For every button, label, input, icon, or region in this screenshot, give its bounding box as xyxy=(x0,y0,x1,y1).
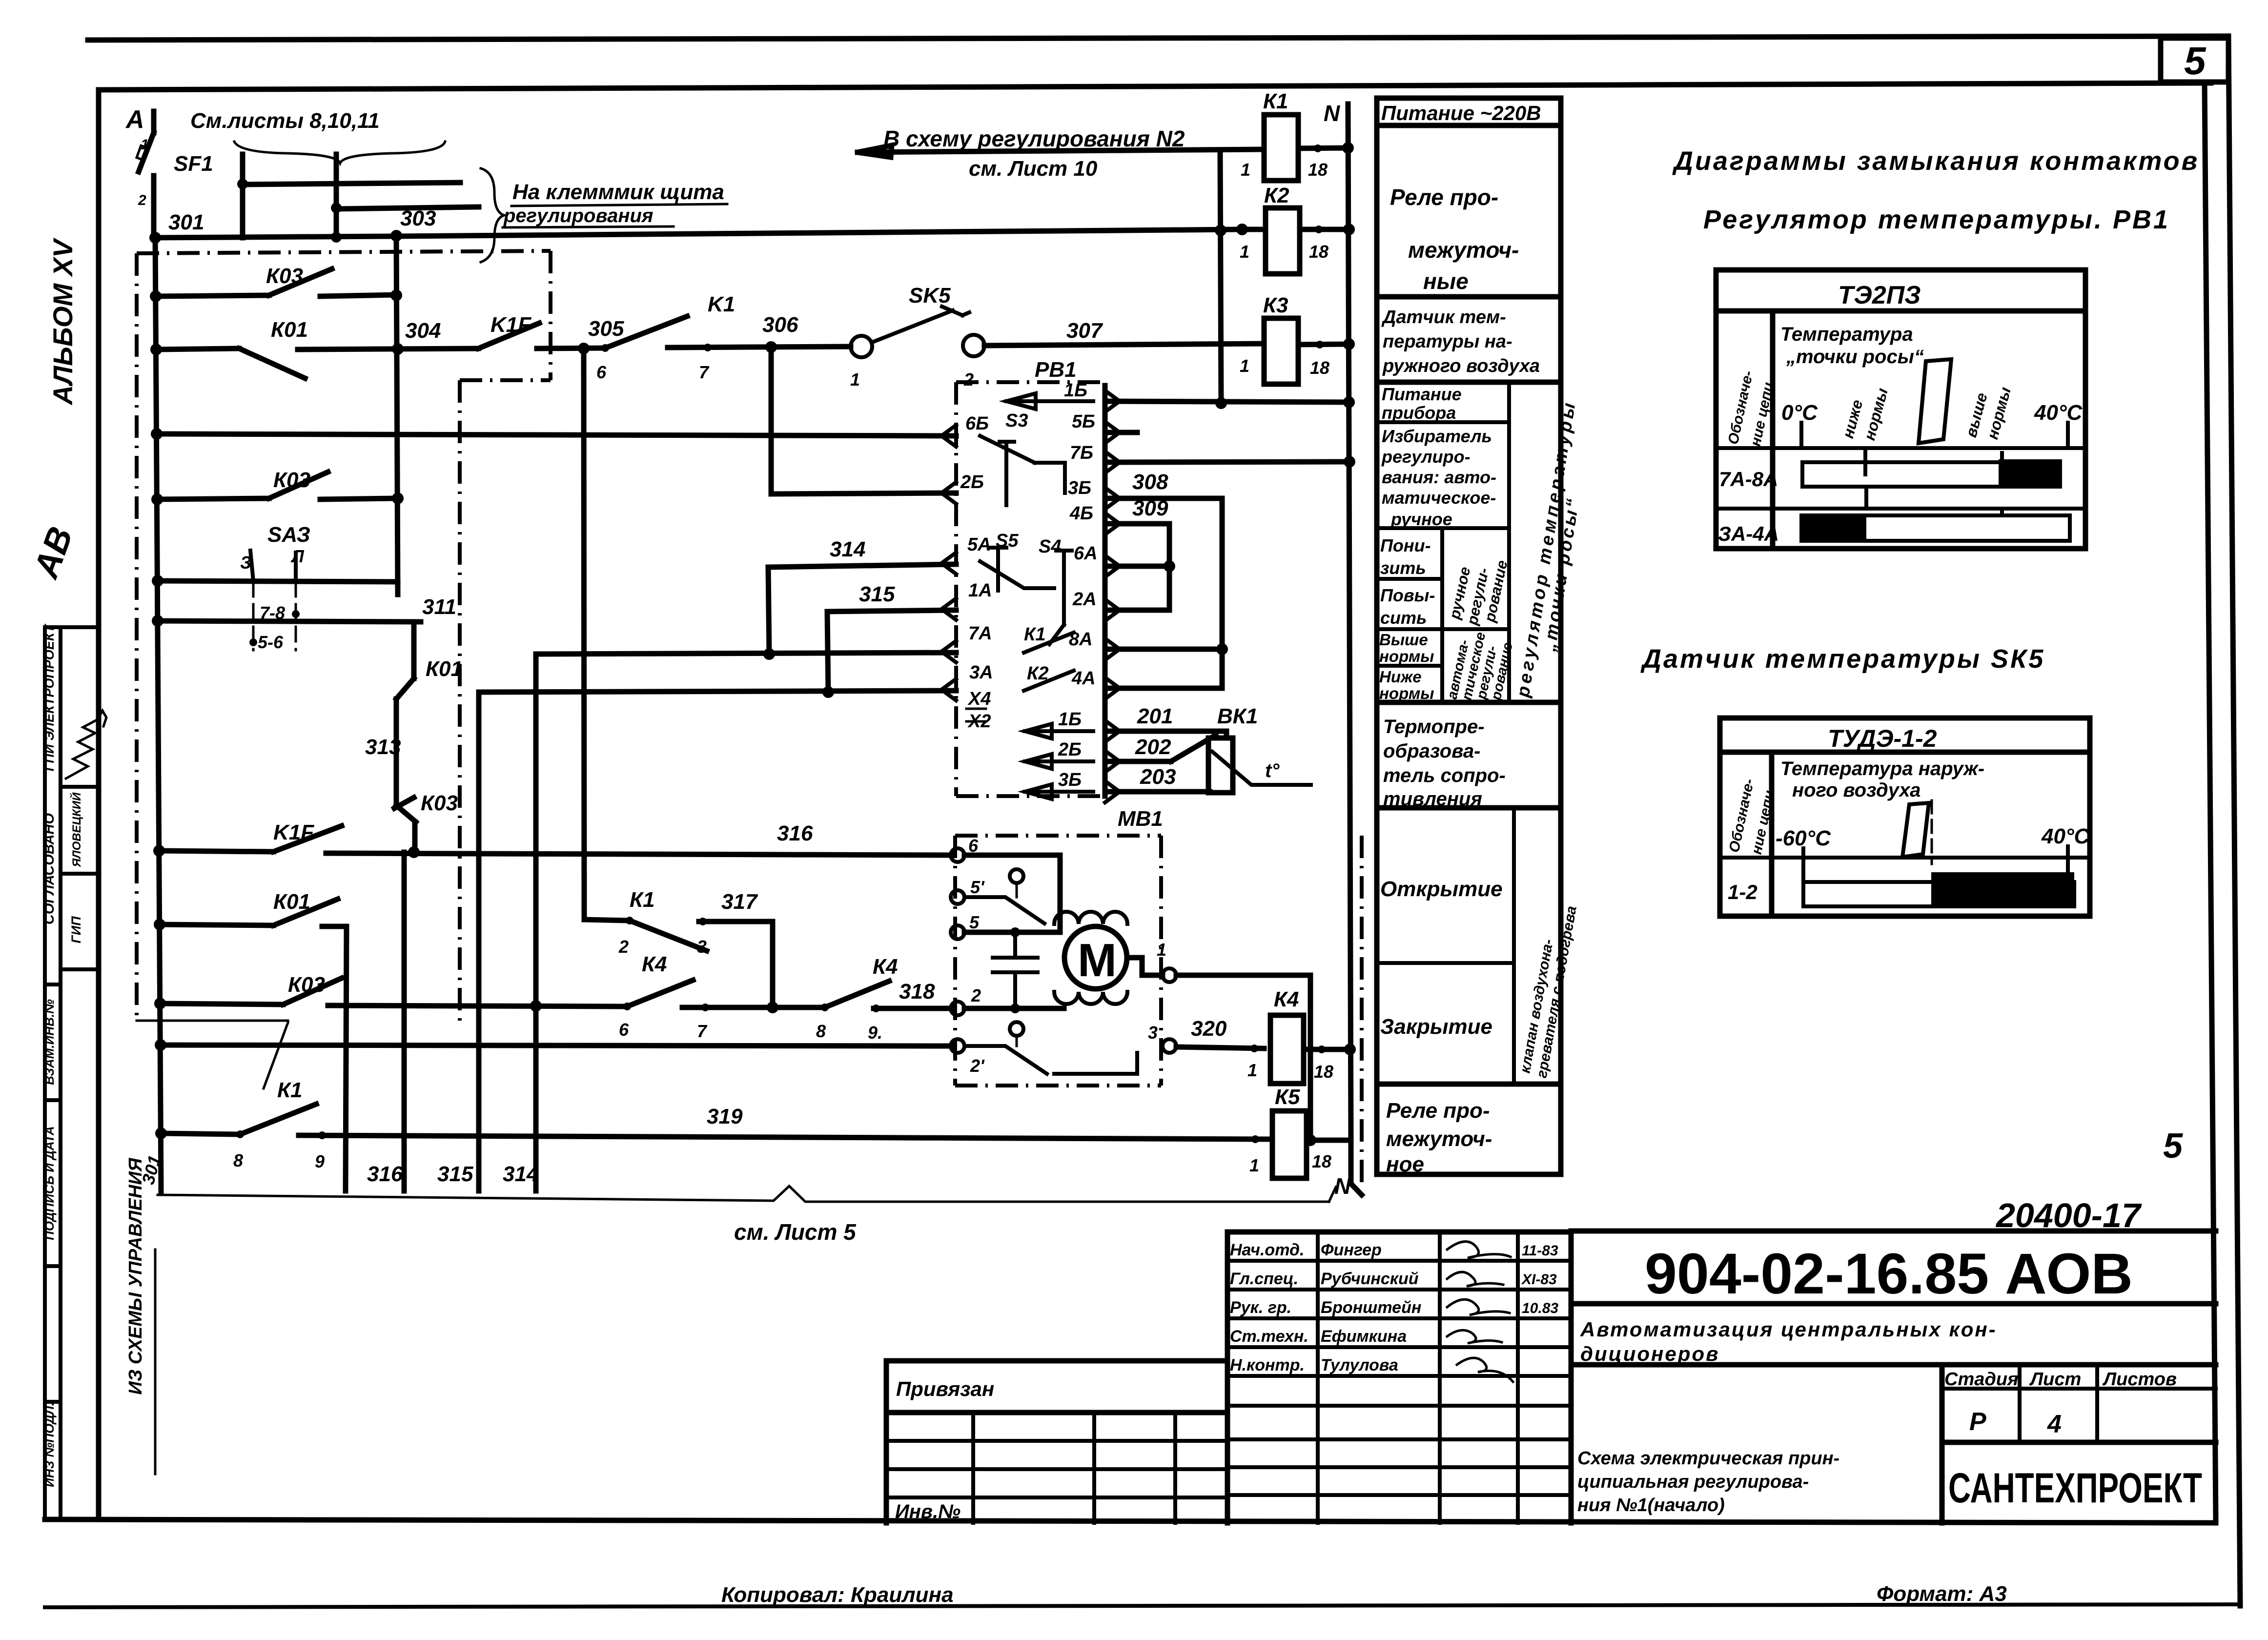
svg-text:9.: 9. xyxy=(868,1023,882,1043)
svg-text:ИНЗ №ПОДЛ.: ИНЗ №ПОДЛ. xyxy=(42,1402,57,1487)
svg-text:320: 320 xyxy=(1191,1017,1227,1041)
svg-text:3: 3 xyxy=(697,937,707,957)
svg-text:К4: К4 xyxy=(1274,987,1299,1011)
svg-text:К1: К1 xyxy=(1024,624,1046,645)
junction dot K03row-vert xyxy=(390,289,402,301)
tick below bar xyxy=(1864,487,1868,509)
svg-text:Р: Р xyxy=(1969,1408,1986,1436)
relay coil K1 xyxy=(1264,115,1298,181)
contact K03 vertical blade xyxy=(394,798,416,822)
svg-text:ного воздуха: ного воздуха xyxy=(1792,779,1921,801)
PB1 K2 contact xyxy=(1024,671,1074,691)
svg-text:Повы-: Повы- xyxy=(1380,585,1435,605)
svg-text:тивления: тивления xyxy=(1383,788,1482,810)
junction dot stub2-bus301 xyxy=(331,232,342,243)
svg-text:1Б: 1Б xyxy=(1064,380,1087,401)
MV1 dash-dot box xyxy=(955,836,1161,1086)
vertical 303 to 304 xyxy=(396,236,398,594)
wire 307 xyxy=(984,344,1264,346)
svg-text:1: 1 xyxy=(1241,160,1250,180)
table TE2P3 outer xyxy=(1716,270,2085,549)
svg-text:АЛЬБОМ XV: АЛЬБОМ XV xyxy=(47,237,78,406)
sheet outer bottom line xyxy=(45,1604,2240,1607)
wire 308 row xyxy=(1105,496,1222,501)
svg-text:Тулулова: Тулулова xyxy=(1321,1356,1398,1374)
BK1 t blade xyxy=(1212,752,1311,785)
wire 306 segment xyxy=(668,347,851,348)
bar t2 filled xyxy=(1931,872,2074,906)
vertical exit 1098 from 7A row xyxy=(533,654,539,1191)
junction dot on 3A row xyxy=(822,686,834,698)
junction dot 313-chain on row316 xyxy=(408,846,420,858)
contact K01 vertical blade xyxy=(396,678,414,699)
wire 318 xyxy=(874,1006,953,1011)
PB1 S3 T bar xyxy=(1000,442,1014,505)
wire K1 coil to N xyxy=(1298,148,1348,148)
svg-text:ВК1: ВК1 xyxy=(1217,704,1258,728)
junction dot N-K3 xyxy=(1343,338,1355,350)
contact K01 blade row716 xyxy=(239,348,305,378)
junction dot N-K2 xyxy=(1343,224,1355,235)
svg-text:1: 1 xyxy=(1240,356,1249,376)
junction dot N-K4 xyxy=(1344,1044,1356,1055)
MV1 limit switch box xyxy=(964,855,1060,932)
MV1 inner wire to 3 xyxy=(1054,1053,1137,1074)
wire 3A row xyxy=(479,691,956,692)
svg-text:1: 1 xyxy=(850,369,860,389)
cell ТЕРМОПРЕОБРАЗОВАТЕЛЬ СОПРОТИВЛЕНИЯ xyxy=(1383,716,1506,810)
frame right border inner xyxy=(2205,82,2216,1519)
svg-text:1-2: 1-2 xyxy=(1728,881,1757,903)
tick above 8A bar xyxy=(2000,453,2004,462)
svg-text:ТЭ2ПЗ: ТЭ2ПЗ xyxy=(1838,281,1921,309)
wire stub right under brace xyxy=(334,154,339,209)
cell ИЗБИРАТЕЛЬ РЕГУЛИРОВАНИЯ xyxy=(1381,426,1496,529)
contact K1 row319 blade xyxy=(240,1104,316,1134)
svg-text:1А: 1А xyxy=(968,580,992,601)
sheet outer right border xyxy=(2228,36,2240,1606)
svg-text:К1: К1 xyxy=(277,1078,303,1102)
svg-text:ЯЛОВЕЦКИЙ: ЯЛОВЕЦКИЙ xyxy=(69,792,83,868)
svg-text:7: 7 xyxy=(697,1021,708,1041)
svg-text:306: 306 xyxy=(762,313,798,337)
MV1 switch indicator circle xyxy=(1010,869,1023,883)
relay coil K3 xyxy=(1264,318,1298,384)
junction dot N-1B xyxy=(1343,396,1355,408)
svg-text:см. Лист 5: см. Лист 5 xyxy=(734,1219,857,1245)
parallelogram flag t1 xyxy=(1919,359,1951,443)
MV1 terminal 2 xyxy=(951,1002,964,1015)
svg-text:18: 18 xyxy=(1308,160,1328,180)
tick 40C t1 xyxy=(2066,423,2070,448)
wire row K03 no1 right part xyxy=(320,295,396,296)
dash-dot panel boundary left vertical xyxy=(135,253,139,1021)
tick -60C xyxy=(1801,848,1805,886)
junction dot K03no2-vert xyxy=(392,492,404,504)
node dot 306 xyxy=(765,341,777,353)
svg-text:ГИП: ГИП xyxy=(69,916,83,943)
MV1 wire 5 row xyxy=(964,930,1060,935)
contact K03 no1 blade xyxy=(269,269,332,295)
contact K03 no2 blade xyxy=(269,472,328,498)
MV1 terminal 5 xyxy=(951,925,964,939)
SK5 terminal circle 1 xyxy=(851,336,872,357)
svg-text:5Б: 5Б xyxy=(1072,411,1095,432)
pin1 dot K5coil xyxy=(1251,1135,1259,1143)
tick 0C xyxy=(1799,423,1803,448)
svg-text:К03: К03 xyxy=(288,973,325,997)
rotated ОБОЗНАЧЕНИЕ ЦЕПИ t2 xyxy=(1726,778,1778,856)
svg-text:Термопре-: Термопре- xyxy=(1383,716,1485,738)
brace under note xyxy=(234,142,445,163)
bar t2 outline xyxy=(1803,882,2074,906)
wire between K4 contacts xyxy=(682,1005,825,1010)
wire to scheme N2 with arrow xyxy=(858,145,1264,157)
wire K2 coil to N xyxy=(1300,227,1349,232)
PB1 inner arrow 1B xyxy=(1006,393,1093,409)
contact K4 no1 blade xyxy=(627,980,693,1006)
svg-text:10.83: 10.83 xyxy=(1522,1300,1558,1316)
svg-text:316: 316 xyxy=(777,821,813,845)
svg-text:диционеров: диционеров xyxy=(1580,1342,1719,1365)
wire 6A row xyxy=(1105,564,1169,569)
svg-text:5: 5 xyxy=(969,912,980,932)
vertical M1 down to K5 row xyxy=(1308,975,1313,1139)
svg-text:К01: К01 xyxy=(271,318,308,342)
svg-text:пературы на-: пературы на- xyxy=(1383,331,1512,352)
PB1 internal labels left column xyxy=(960,410,1061,732)
margin signature squiggle xyxy=(66,711,106,779)
svg-text:регулирования: регулирования xyxy=(503,205,653,226)
wire row SA3 xyxy=(158,581,398,582)
svg-text:1: 1 xyxy=(1247,1060,1257,1080)
pin18 dot K2 xyxy=(1315,225,1323,233)
contact K1 blade row716 xyxy=(605,316,687,348)
left bus rail 301 vertical xyxy=(155,238,161,1191)
wire 201 row xyxy=(1105,729,1226,734)
svg-text:К4: К4 xyxy=(642,952,667,976)
junction dot 6A xyxy=(1164,560,1175,572)
svg-text:M: M xyxy=(1078,934,1117,986)
cell ДАТЧИК ТЕМПЕРАТУРЫ НАРУЖНОГО ВОЗДУХА xyxy=(1381,307,1540,376)
table TUDE header line xyxy=(1720,750,2090,755)
wire 319 long xyxy=(299,1135,1272,1139)
wire K1 2-3 row 317 xyxy=(584,920,630,921)
thermal sensor BK1 leader from 201 xyxy=(1224,731,1229,738)
MV1 2prim indicator circle xyxy=(1010,1022,1023,1036)
rotated КЛАПАН ВОЗДУХОНАГРЕВАТЕЛЯ xyxy=(1517,905,1580,1080)
svg-text:202: 202 xyxy=(1135,735,1171,759)
PB1 X4 X2 stubs xyxy=(966,709,986,721)
underline 2 xyxy=(503,226,674,227)
svg-text:t°: t° xyxy=(1265,760,1280,781)
svg-text:319: 319 xyxy=(707,1105,743,1128)
svg-text:3А: 3А xyxy=(969,662,993,683)
svg-text:317: 317 xyxy=(721,890,758,914)
MV1 motor circle xyxy=(1064,926,1127,989)
MV1 terminal 2p xyxy=(951,1039,964,1053)
PB1 inner arrows 201-203 xyxy=(1025,724,1093,799)
SA3 tick left xyxy=(250,551,253,581)
wire row K03 no2 right xyxy=(320,498,398,499)
svg-text:301: 301 xyxy=(168,210,204,234)
dash-dot panel boundary top xyxy=(137,251,551,253)
svg-text:5А: 5А xyxy=(967,534,991,555)
PB1 S4 link xyxy=(1049,625,1064,644)
SA3 7-8 dot xyxy=(292,610,300,618)
svg-text:304: 304 xyxy=(405,319,441,343)
tick above 3A bar xyxy=(2000,509,2004,515)
wire row K01 no2 right to vertical xyxy=(322,924,347,929)
svg-text:РВ1: РВ1 xyxy=(1035,358,1077,382)
junction dot K2row feed xyxy=(1215,225,1226,236)
svg-text:2: 2 xyxy=(618,937,629,957)
MV1 terminal 1 xyxy=(1163,968,1176,982)
signature squiggles xyxy=(1447,1242,1513,1382)
vertical 308 to 4A xyxy=(1220,498,1225,688)
relay coil K2 xyxy=(1266,208,1300,274)
svg-text:K1F: K1F xyxy=(273,820,314,844)
svg-text:К4: К4 xyxy=(873,955,898,979)
PB1 S3 contact xyxy=(980,436,1065,493)
table TE2P3 header line xyxy=(1716,308,2085,314)
svg-text:ГПИ ЭЛЕКТРОПРОЕКТ: ГПИ ЭЛЕКТРОПРОЕКТ xyxy=(42,623,57,771)
table TE2P3 col divider xyxy=(1770,311,1776,549)
cell ПОНИЗИТЬ xyxy=(1380,535,1431,578)
signature table texts xyxy=(1230,1241,1558,1374)
svg-text:315: 315 xyxy=(859,582,895,606)
junction dot 8A xyxy=(1216,643,1228,655)
svg-text:305: 305 xyxy=(588,317,624,341)
svg-text:К2: К2 xyxy=(1264,184,1289,207)
breaker SF1 body tick xyxy=(137,145,147,160)
privyazan box xyxy=(886,1361,1227,1523)
svg-text:К03: К03 xyxy=(421,791,458,815)
svg-text:5': 5' xyxy=(970,877,985,897)
vertical 311 down chain 313 xyxy=(411,622,417,678)
junction dot bus2 xyxy=(331,203,342,213)
svg-text:ные: ные xyxy=(1423,268,1469,294)
svg-text:K1: K1 xyxy=(708,292,735,316)
svg-text:2': 2' xyxy=(970,1056,985,1076)
svg-text:нормы: нормы xyxy=(1379,647,1434,665)
wire 4A row xyxy=(1105,686,1222,691)
node dot 305 xyxy=(578,343,590,354)
junction dot M1-K5 xyxy=(1305,1134,1316,1146)
svg-text:SK5: SK5 xyxy=(909,284,951,307)
svg-text:прибора: прибора xyxy=(1382,403,1456,423)
wire row K03 no2 xyxy=(157,498,269,499)
svg-text:Копировал: Краилина: Копировал: Краилина xyxy=(721,1583,954,1607)
svg-text:1: 1 xyxy=(1249,1155,1259,1175)
svg-text:N: N xyxy=(1324,101,1340,126)
dash-dot notch horizontal xyxy=(460,378,551,382)
dash-dot notch vertical long xyxy=(458,380,462,1021)
pin 7 dot K4 xyxy=(701,1004,709,1011)
MV1 pin1 wire xyxy=(1127,958,1163,975)
svg-text:40°С: 40°С xyxy=(2034,401,2083,425)
MV1 wire 2prim row contact xyxy=(964,1046,1047,1074)
vertical drop from bus2 to node 303 xyxy=(334,208,339,238)
MV1 capacitor xyxy=(993,932,1038,1008)
vertical 317 down xyxy=(770,922,776,1007)
left margin stamp column xyxy=(45,627,99,1519)
svg-text:18: 18 xyxy=(1312,1151,1331,1171)
svg-text:Ст.техн.: Ст.техн. xyxy=(1230,1327,1308,1346)
svg-text:ное: ное xyxy=(1386,1152,1424,1176)
cell ВЫШЕ НОРМЫ xyxy=(1379,631,1434,665)
underline of ИЗ СХЕМЫ УПРАВЛЕНИЯ xyxy=(154,1250,157,1474)
svg-text:5-6: 5-6 xyxy=(258,632,284,652)
relay coil K5 xyxy=(1272,1111,1307,1178)
label ТЕМПЕРАТУРА ТОЧКИ РОСЫ xyxy=(1780,324,1924,368)
svg-text:Диаграммы замыкания контакто: Диаграммы замыкания контактов xyxy=(1672,146,2199,176)
svg-text:1: 1 xyxy=(1240,242,1249,262)
svg-text:регулиро-: регулиро- xyxy=(1381,447,1471,467)
svg-text:матическое-: матическое- xyxy=(1382,488,1496,508)
svg-text:Пони-: Пони- xyxy=(1380,535,1431,555)
title block outer xyxy=(1571,1231,2216,1523)
svg-text:7А-8А: 7А-8А xyxy=(1719,468,1778,491)
PB1 S4 T bar xyxy=(1056,551,1072,625)
PB1 right edge solid xyxy=(1103,386,1108,796)
wire to K1F row xyxy=(412,822,418,852)
wire to terminal bus 2 xyxy=(336,207,479,209)
dash-dot K1F vertical xyxy=(549,251,552,380)
svg-text:образова-: образова- xyxy=(1383,740,1480,762)
svg-text:Ефимкина: Ефимкина xyxy=(1321,1327,1407,1346)
svg-text:см. Лист 10: см. Лист 10 xyxy=(969,157,1098,181)
frame top line xyxy=(99,83,2211,90)
wire row K1F no2 (316) left xyxy=(159,851,273,852)
svg-text:203: 203 xyxy=(1140,765,1176,789)
junction dot on 7A row xyxy=(763,648,775,660)
svg-text:S3: S3 xyxy=(1005,410,1028,431)
wire row 311 xyxy=(158,621,421,622)
cell НИЖЕ НОРМЫ xyxy=(1379,668,1434,702)
pin 6 dot xyxy=(601,344,609,352)
MV1 junction dot cap top xyxy=(1010,927,1020,937)
function column frame xyxy=(1377,98,1561,1174)
pin 9 dot row319 xyxy=(318,1131,326,1139)
svg-text:5: 5 xyxy=(2184,39,2207,82)
svg-text:Н.контр.: Н.контр. xyxy=(1230,1356,1305,1374)
wire 2B row xyxy=(771,493,956,494)
pin 8 dot K4 xyxy=(821,1004,829,1011)
bus to PB1 6B row xyxy=(157,434,956,436)
svg-text:ручное: ручное xyxy=(1390,509,1452,529)
N rail bottom hook xyxy=(1351,1140,1362,1195)
brace На клеммник xyxy=(481,168,504,262)
SA3 dashed leg right xyxy=(295,582,297,650)
MV1 terminal 6 xyxy=(951,848,964,862)
svg-text:Нач.отд.: Нач.отд. xyxy=(1230,1241,1304,1259)
svg-text:2: 2 xyxy=(138,192,146,208)
leader line to ИЗ СХЕМЫ УПРАВЛЕНИЯ xyxy=(264,1023,288,1088)
parallelogram flag t2 xyxy=(1902,803,1929,857)
svg-text:Рубчинский: Рубчинский xyxy=(1321,1270,1419,1288)
svg-text:„точки росы“: „точки росы“ xyxy=(1786,346,1924,368)
vertical 314 to 7A xyxy=(768,567,769,654)
svg-text:Избиратель: Избиратель xyxy=(1382,426,1492,446)
junction dot row2057 x1583 xyxy=(767,1002,778,1013)
svg-text:На клемммик щита: На клемммик щита xyxy=(512,180,724,204)
pin 7 dot xyxy=(704,344,712,351)
svg-text:4: 4 xyxy=(2047,1410,2062,1438)
contact K1F blade row716 xyxy=(478,323,539,348)
wire 313 vertical xyxy=(394,699,399,805)
svg-text:308: 308 xyxy=(1132,470,1168,494)
svg-text:307: 307 xyxy=(1066,319,1103,343)
svg-text:Температура: Температура xyxy=(1780,324,1913,345)
svg-text:Реле про-: Реле про- xyxy=(1386,1099,1490,1123)
svg-text:XI-83: XI-83 xyxy=(1521,1271,1557,1288)
svg-text:K1F: K1F xyxy=(490,313,531,337)
MV1 2prim indicator stem xyxy=(1016,1036,1018,1046)
svg-text:7А: 7А xyxy=(968,623,992,644)
MV1 terminal 5p xyxy=(951,890,964,904)
vertical from node 306 to 2B corner xyxy=(769,347,774,494)
svg-text:А: А xyxy=(125,105,144,134)
svg-text:7: 7 xyxy=(699,362,710,382)
t1 subrow line b xyxy=(1716,507,2085,511)
svg-text:Питание: Питание xyxy=(1382,384,1462,404)
svg-text:СОГЛАСОВАНО: СОГЛАСОВАНО xyxy=(41,813,57,924)
svg-text:ципиальная регулирова-: ципиальная регулирова- xyxy=(1577,1472,1809,1492)
MV1 switch indicator stem xyxy=(1016,883,1018,897)
wire 320 xyxy=(1176,1047,1264,1048)
vertical feed to K2 row xyxy=(1220,150,1221,403)
svg-text:Листов: Листов xyxy=(2102,1369,2177,1390)
svg-text:2А: 2А xyxy=(1072,589,1097,610)
svg-text:6: 6 xyxy=(619,1020,629,1040)
svg-text:ТУДЭ-1-2: ТУДЭ-1-2 xyxy=(1828,725,1937,752)
svg-text:3Б: 3Б xyxy=(1068,478,1091,498)
wire 315 row xyxy=(827,610,956,612)
svg-text:Схема электрическая прин-: Схема электрическая прин- xyxy=(1577,1448,1839,1469)
vertical exit 981 from 3A row xyxy=(476,692,482,1191)
junction dot bus1 xyxy=(237,179,248,189)
wire stub left under brace xyxy=(240,154,245,184)
svg-text:сить: сить xyxy=(1380,608,1427,628)
svg-text:11-83: 11-83 xyxy=(1522,1243,1558,1259)
node dot 301 xyxy=(149,232,161,244)
svg-text:SАЗ: SАЗ xyxy=(267,523,310,547)
svg-text:6А: 6А xyxy=(1074,543,1098,564)
t2 subrow line xyxy=(1720,856,2090,860)
SK5 terminal circle 2 xyxy=(963,335,984,356)
cell ПОВЫСИТЬ xyxy=(1380,585,1435,628)
table TUDE col divider xyxy=(1769,752,1775,916)
rotated РЕГУЛЯТОР ТЕМПЕРАТУРЫ ТОЧКИ РОСЫ xyxy=(1512,399,1583,699)
svg-text:Рук. гр.: Рук. гр. xyxy=(1230,1298,1291,1317)
PB1 dash-dot box xyxy=(956,382,1105,796)
vertical from node 305 xyxy=(584,348,584,920)
svg-text:ния №1(начало): ния №1(начало) xyxy=(1577,1495,1725,1516)
svg-text:3Б: 3Б xyxy=(1058,770,1082,790)
cell РЕЛЕ ПРОМЕЖУТОЧНОЕ xyxy=(1386,1099,1492,1176)
wire K4 coil to N xyxy=(1304,1047,1350,1052)
wire K03no3 to K4 contact xyxy=(328,1005,627,1006)
junction dot 1B row feed xyxy=(1215,397,1227,409)
wire row K03 no1 xyxy=(156,295,269,296)
svg-text:ПОДПИСЬ И ДАТА: ПОДПИСЬ И ДАТА xyxy=(42,1126,57,1240)
wire to terminal bus 1 xyxy=(243,183,460,184)
pin18 dot K4coil xyxy=(1318,1045,1326,1053)
rotated ОБОЗНАЧЕНИЕ ЦЕПИ t1 xyxy=(1725,369,1777,448)
wire M1 right xyxy=(1176,973,1310,978)
svg-text:Привязан: Привязан xyxy=(896,1377,994,1400)
